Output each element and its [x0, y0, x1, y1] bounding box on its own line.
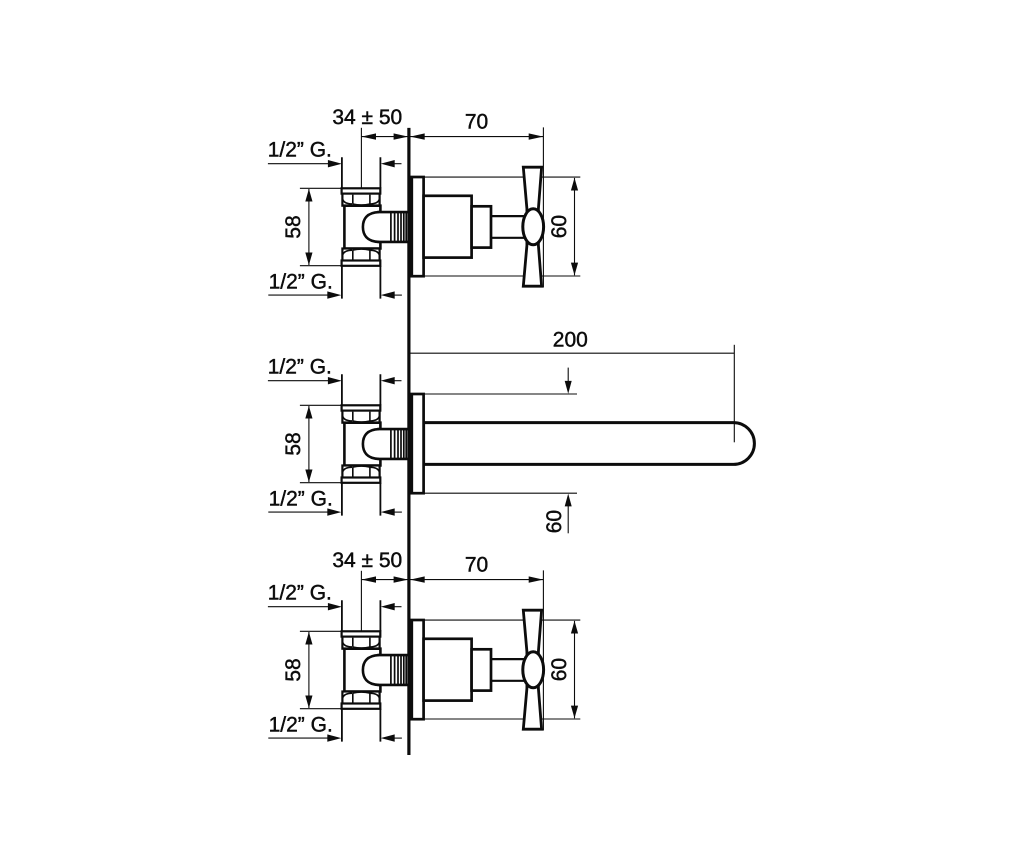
inlet pipe stub bottom [342, 266, 381, 299]
inlet pipe stub top [342, 157, 381, 188]
washer upper [342, 188, 381, 193]
spout [424, 423, 755, 465]
svg-text:1/2” G.: 1/2” G. [268, 139, 332, 162]
dim 60 line [574, 178, 576, 275]
stem [491, 216, 527, 238]
side port dome [363, 212, 379, 242]
dim 60 reference lines [424, 394, 577, 493]
bottom dimension 58 [282, 631, 342, 708]
svg-text:58: 58 [282, 215, 305, 238]
thread hatching [391, 213, 406, 241]
dim 60 extension lines [410, 177, 580, 276]
arrowhead down [305, 253, 312, 266]
bottom valve body unit [342, 600, 408, 741]
hex nut lower [342, 249, 379, 261]
front trim unit with dimensions 34/70/60 (template, axis y=227) [332, 106, 580, 288]
washer lower [342, 261, 381, 266]
dim 200 line [410, 352, 734, 354]
extension line bottom [300, 265, 342, 267]
leader line lower [268, 294, 329, 296]
cross handle blade [523, 167, 541, 286]
svg-text:200: 200 [553, 329, 588, 352]
dim 34-50 line [361, 136, 408, 138]
opposite arrow lower [392, 294, 402, 296]
svg-text:70: 70 [465, 110, 488, 133]
middle spout group [410, 329, 755, 534]
dim 34-50 extension line [360, 128, 362, 188]
wall flange [412, 177, 424, 276]
middle dimension 58 [282, 405, 342, 482]
wall line [407, 128, 410, 755]
dimension 58 (template, axis y=227) [282, 188, 342, 265]
opposite arrow upper [392, 163, 402, 165]
extension line top [300, 187, 342, 189]
side port cylinder [378, 212, 408, 242]
dim 60 up arrow [567, 506, 569, 534]
bottom 1/2" G. labels [268, 582, 402, 742]
valve main body [344, 206, 380, 249]
dim 70 extension line at handle [542, 127, 544, 287]
valve trim body [424, 196, 472, 258]
svg-text:34 ± 50: 34 ± 50 [332, 106, 402, 129]
handle hub [523, 209, 544, 245]
concealed valve body unit (template, axis y=227) [342, 157, 408, 298]
bonnet [472, 206, 491, 247]
svg-text:1/2” G.: 1/2” G. [269, 270, 333, 293]
middle 1/2" G. labels [268, 356, 402, 516]
dim 60 down arrow [567, 368, 569, 382]
dim 70 line [410, 136, 544, 138]
dim 200 extension line [733, 345, 735, 443]
bottom front trim unit with dims [332, 549, 580, 731]
arrowhead up [305, 189, 312, 202]
spout wall flange [412, 394, 424, 493]
svg-text:60: 60 [548, 215, 571, 238]
hex nut upper [342, 194, 379, 206]
svg-text:60: 60 [543, 510, 566, 533]
1/2" G. labels pair (template, axis y=227) [268, 139, 402, 299]
leader line upper [268, 163, 330, 165]
middle valve body unit [342, 374, 408, 515]
dimension line [308, 189, 310, 265]
